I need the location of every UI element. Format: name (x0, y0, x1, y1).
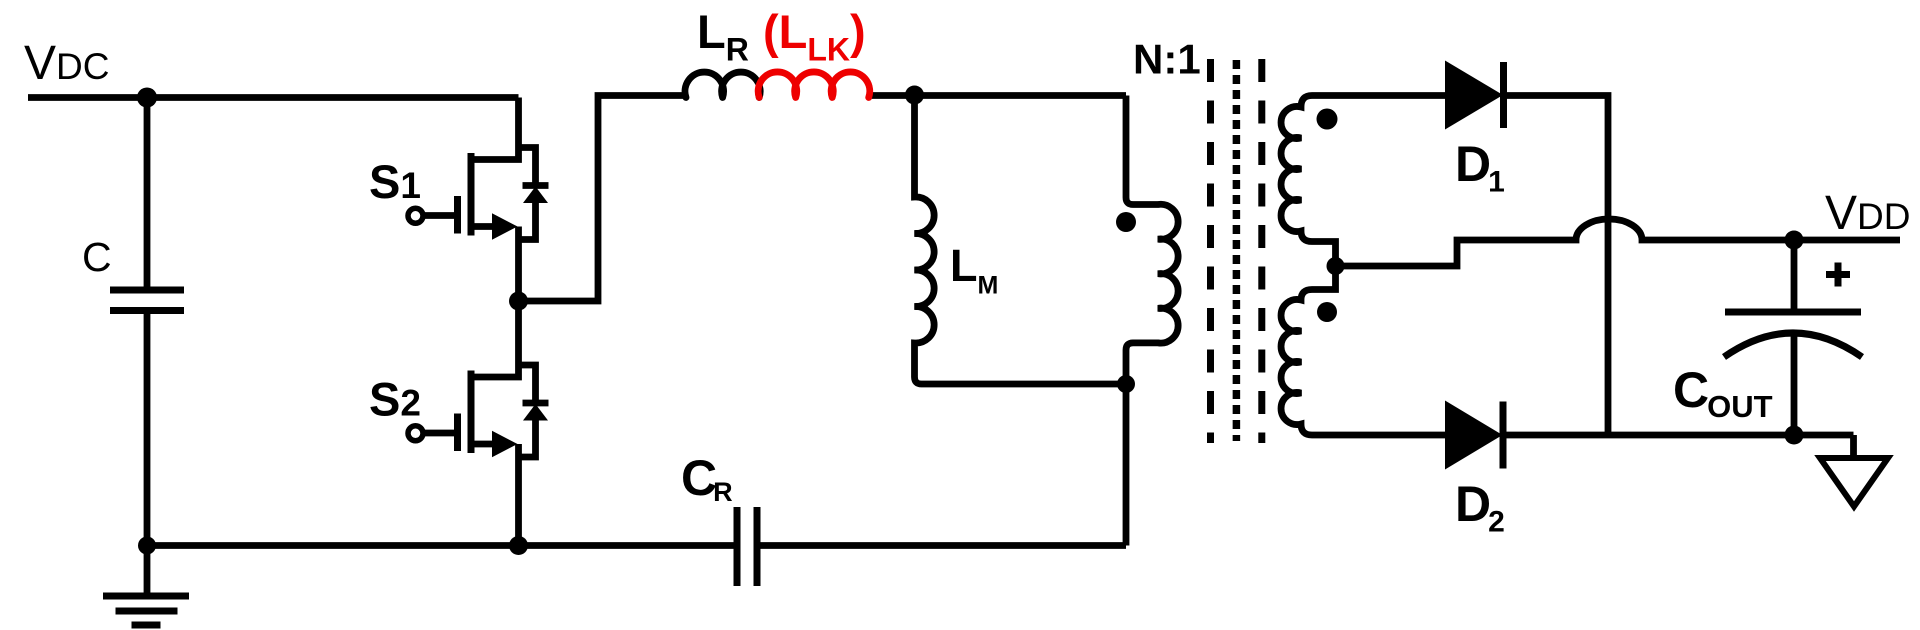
svg-text:N:1: N:1 (1133, 36, 1201, 83)
svg-text:C: C (82, 234, 112, 280)
